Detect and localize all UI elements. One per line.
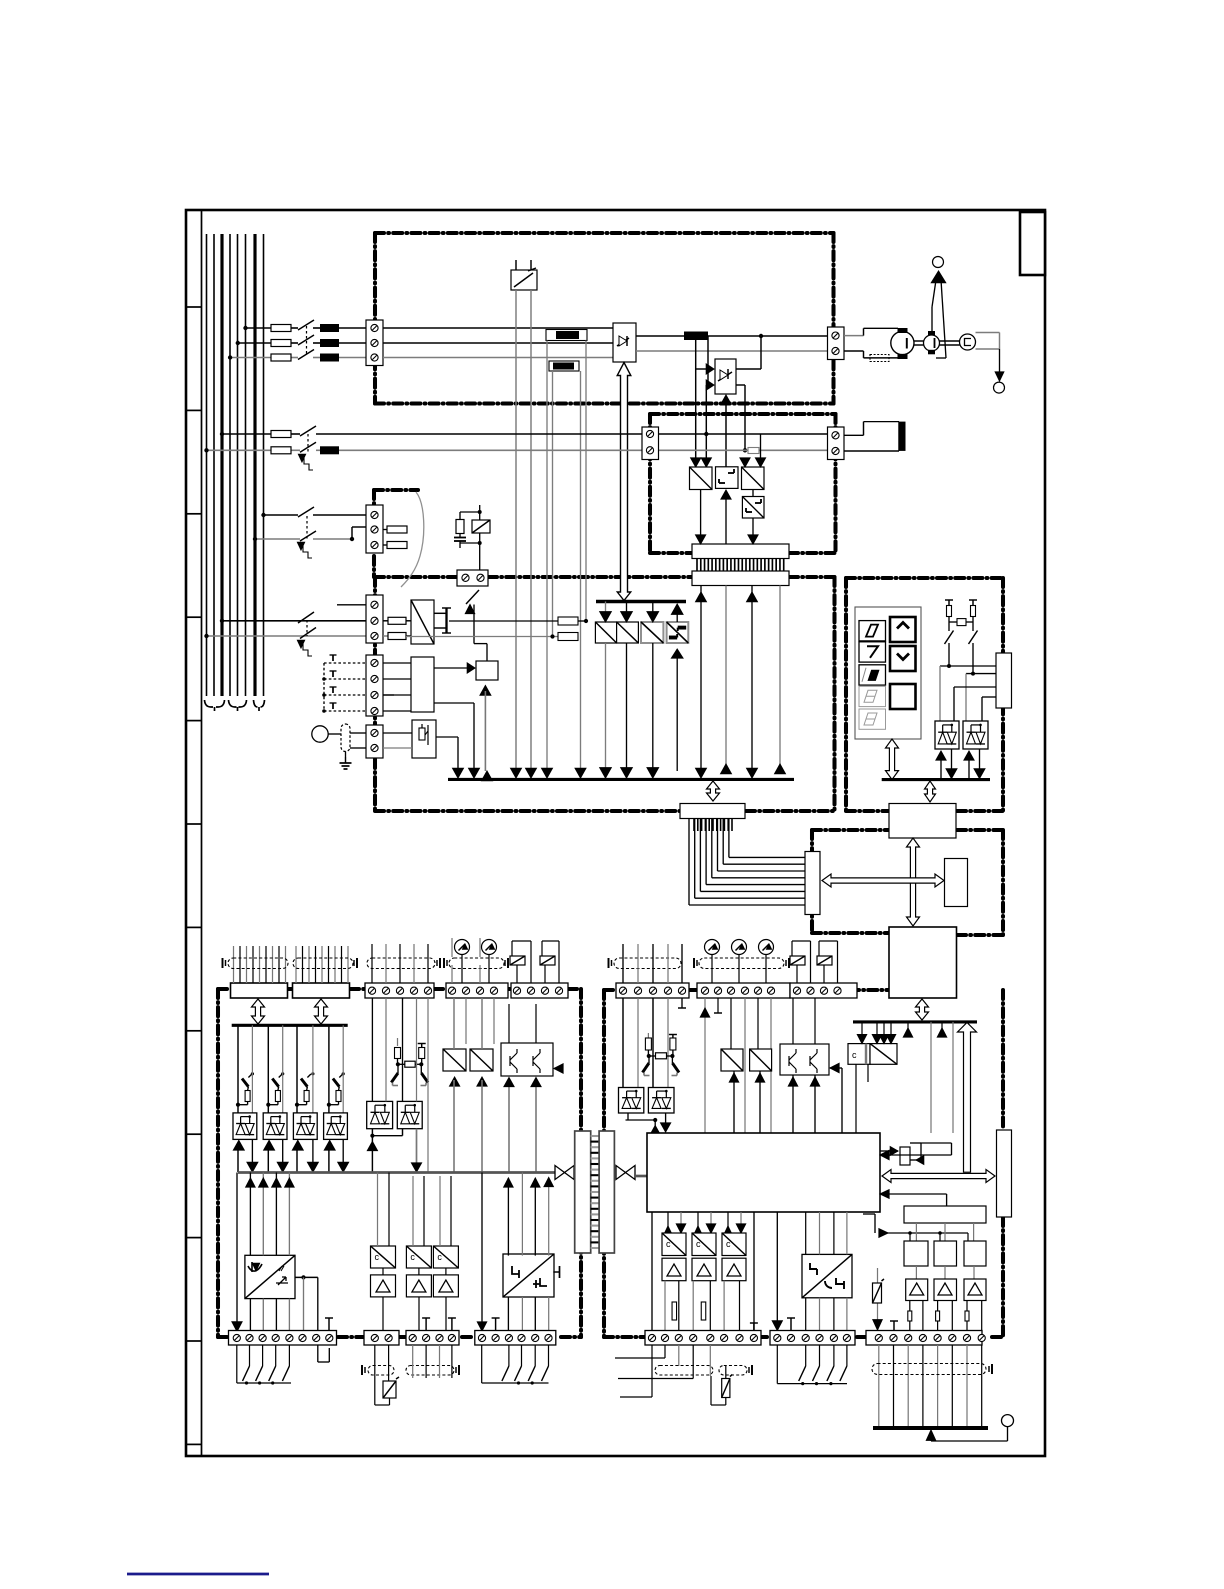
safety switch SW1 <box>397 1066 399 1073</box>
opto coupler SR2 <box>648 1088 674 1114</box>
page frame inner column line <box>201 211 203 1455</box>
wire: aux row DC- to brake <box>207 449 272 451</box>
cable shield X11 <box>449 958 504 969</box>
wire: control supply row1 <box>264 514 299 516</box>
wires DA-R <box>733 1071 735 1133</box>
meter M-A2 <box>482 940 497 955</box>
ribbon cable pins P1 <box>233 946 235 983</box>
cable shield dashed <box>870 355 889 362</box>
terminal block X6 <box>457 570 488 586</box>
connector E2 <box>692 571 789 586</box>
wire: DC- row <box>636 350 827 352</box>
switch Q4 on control rows <box>298 612 314 623</box>
input resistor Ri2 <box>275 1091 280 1102</box>
fuse F2 <box>271 340 291 347</box>
wire: U2 bottom out <box>434 702 474 704</box>
dashed input lines with switches <box>324 662 366 664</box>
safety resistor RS2 <box>419 1048 425 1059</box>
power supply rectifier U1 <box>411 600 434 644</box>
T-stub RA <box>753 1323 755 1330</box>
keypad button down <box>890 646 916 671</box>
relay contacts X19 <box>790 956 805 965</box>
isolated supply box PS3 <box>802 1254 852 1297</box>
fuse F1 <box>271 325 291 332</box>
switch Q3 <box>298 507 314 517</box>
keypad switch S4 <box>969 631 978 645</box>
cable curve to transformer <box>401 492 424 587</box>
A/D box AD2 <box>470 1049 493 1071</box>
input chain 4 wiring <box>328 1025 330 1113</box>
wires I to J <box>915 1223 917 1241</box>
relay K1 coil <box>472 520 490 533</box>
wires drivers to bottom bus <box>605 643 607 771</box>
input chain 1 wiring <box>237 1025 239 1113</box>
wire: chopper outputs <box>736 368 761 370</box>
grey feeds to safety optos <box>371 998 373 1101</box>
keypad button up <box>890 617 916 642</box>
D/A DA-B2 <box>692 1233 716 1256</box>
DAC header box I <box>904 1206 986 1223</box>
board connector CN2 <box>599 1131 614 1253</box>
AO1 output net <box>295 1276 318 1278</box>
keypad bus wires <box>940 755 942 779</box>
terminal strip X14 <box>364 1331 399 1346</box>
wires AO1 up <box>249 1173 251 1256</box>
isolated supply box PS2 <box>503 1254 554 1297</box>
wire: row to fuse <box>383 620 388 622</box>
bowtie connector right <box>616 1166 626 1180</box>
opto outputs 2 <box>267 1146 269 1172</box>
option module F <box>945 859 968 907</box>
bus group brace 2 <box>229 700 247 711</box>
wires PS2 <box>507 1178 509 1256</box>
wire: control supply row2 <box>255 538 300 540</box>
cable shield RB short <box>719 1366 747 1376</box>
page frame outer border <box>186 210 1045 1456</box>
filter resistor RF1 <box>558 617 578 625</box>
dual box c-diag <box>848 1044 870 1065</box>
main switch Q1 <box>298 320 314 330</box>
wires busB <box>907 1022 909 1036</box>
connector bracket <box>434 612 446 614</box>
wires DA chains <box>377 1173 379 1247</box>
signal bus bar B <box>853 1020 977 1023</box>
input resistor Ri3 <box>304 1091 309 1102</box>
wire: DC+ row <box>636 335 827 337</box>
connector E1 <box>692 544 789 559</box>
T-stub X16 <box>495 1318 497 1330</box>
relay contact RC2 <box>540 956 555 965</box>
sample hold J1 <box>904 1241 928 1266</box>
fuse F8 <box>383 544 387 546</box>
PTC evaluation U4 <box>412 720 436 758</box>
contacts below RB <box>776 1345 778 1384</box>
wire: bus to X7 row2 <box>222 620 366 622</box>
wires X11 up <box>451 965 453 983</box>
wire: X9 to U4 <box>383 732 412 734</box>
ribbon hatch E1-E2 <box>696 559 698 572</box>
input resistor Ri4 <box>336 1091 341 1102</box>
arrow to control <box>931 271 946 283</box>
arrows into G right <box>880 1150 889 1159</box>
gate driver b3 <box>641 622 663 643</box>
PE circle top <box>933 257 944 268</box>
bottom signal bus of box3 <box>448 778 794 781</box>
current sensor T2b <box>549 361 579 371</box>
big open arrow rectifier to gate bus <box>617 363 631 601</box>
grey line chain 4 <box>342 1025 344 1113</box>
RC snubber capacitor <box>454 537 466 539</box>
dash-dot enclosure: option board box7 <box>604 988 616 992</box>
cable shield X18 <box>699 958 784 969</box>
gate transformer box g4 <box>742 497 764 519</box>
keypad button enter <box>890 684 916 709</box>
open arrow P2 to bus <box>315 999 328 1024</box>
opto coupler B <box>963 721 988 749</box>
keypad connector <box>996 653 1012 708</box>
varistor RV2 <box>877 1268 879 1323</box>
A/D box AD1 <box>443 1049 466 1071</box>
wires AO1 down <box>236 1173 238 1326</box>
fuse F5 <box>271 447 291 454</box>
input chain 2 wiring <box>267 1025 269 1113</box>
fuse F4 <box>271 431 291 438</box>
gate driver b4 PWM <box>667 622 689 643</box>
terminal strip X19 <box>790 983 857 998</box>
safety series RS3 <box>405 1061 415 1067</box>
fuse F10 <box>388 633 406 640</box>
gate driver b2 <box>617 622 639 643</box>
amplifier A2 <box>406 1275 431 1297</box>
cable shield P2 <box>293 958 353 969</box>
amp AB3 <box>722 1258 746 1281</box>
wires latch <box>920 1143 922 1160</box>
blue footer line <box>127 1573 269 1576</box>
filter resistor RF2 <box>558 633 578 641</box>
wire: rows to U2 <box>383 662 411 664</box>
keypad pullup R1 <box>947 606 952 617</box>
connector D <box>805 852 820 915</box>
contacts below X16 <box>508 1345 510 1366</box>
amplifier K3 <box>964 1279 986 1301</box>
PE bus bar <box>873 1426 988 1430</box>
fuse F7 <box>383 529 387 531</box>
frame tick marks <box>187 306 202 308</box>
wire: phases into rectifier <box>383 327 613 329</box>
wires below RA <box>651 1345 653 1397</box>
big open arrow busB down <box>958 1023 977 1173</box>
PE terminal circle <box>1002 1415 1014 1427</box>
wires AD <box>453 998 455 1049</box>
wires X18 up/down <box>704 998 706 1133</box>
DC link choke L5 <box>684 332 708 341</box>
arrows onto bottom bus <box>453 768 464 778</box>
rectifier bridge V1 <box>613 323 636 362</box>
analog opto isolator AO1 <box>245 1255 295 1298</box>
keypad housing <box>855 607 921 739</box>
board connector CN1 <box>575 1131 591 1253</box>
7-segment digits <box>859 621 886 641</box>
D/A DA-B1 <box>662 1233 686 1256</box>
open arrow E to busB <box>916 999 929 1020</box>
opto coupler IN4 <box>324 1113 348 1140</box>
start inhibit logic U3 <box>476 661 498 680</box>
I/O signal line <box>238 1171 555 1174</box>
opto coupler A <box>935 721 959 749</box>
wire to g3 from rows <box>760 434 762 460</box>
terminal strip X10 <box>365 983 434 998</box>
keypad series R3 <box>957 619 966 626</box>
meters X18 <box>705 940 720 955</box>
opto coupler IN3 <box>293 1113 317 1140</box>
motor PTC sensor <box>312 726 328 742</box>
terminal strip X11 <box>446 983 508 998</box>
terminal strip X18 <box>697 983 790 998</box>
open arrow bus down to U5 <box>925 781 936 802</box>
grey line chain 3 <box>312 1025 314 1113</box>
open arrow P1 to bus <box>252 999 265 1024</box>
output transistor box QT2 <box>780 1044 829 1075</box>
terminal strip X15 <box>406 1331 459 1346</box>
svg-text:c: c <box>410 1252 415 1262</box>
contact row below X13 <box>236 1345 238 1366</box>
wire <box>406 620 411 622</box>
ribbon hatch CN <box>591 1135 600 1137</box>
output resistors K <box>909 1301 911 1312</box>
wires QT1 <box>508 1004 510 1043</box>
wires J to K <box>915 1266 917 1279</box>
cable shield X10 <box>367 958 435 969</box>
D/A converter DA1 <box>371 1246 396 1268</box>
terminal block X5 <box>366 505 383 553</box>
wire to X16 <box>481 1173 483 1326</box>
wire: PTC out <box>436 736 458 738</box>
digital input terminal X8 <box>366 655 383 716</box>
wires E2 to bus <box>700 586 702 772</box>
motor M1 <box>891 331 914 354</box>
tachometer B1 <box>940 340 960 342</box>
wire: sensor1 leads <box>546 341 548 772</box>
amp AB1 <box>662 1258 686 1281</box>
opto coupler S1 <box>367 1101 393 1128</box>
svg-text:c: c <box>375 1252 380 1262</box>
T-stub X20 <box>893 1321 895 1330</box>
brake chopper V2 <box>715 359 736 394</box>
terminal strip X13 <box>229 1331 337 1346</box>
varistor RV1 <box>374 1345 376 1405</box>
output transistor box QT1 <box>501 1043 553 1076</box>
svg-text:c: c <box>696 1239 701 1249</box>
svg-text:c: c <box>437 1252 442 1262</box>
terminal block X3 <box>642 427 659 460</box>
horizontal open arrow D to F <box>822 874 944 887</box>
bus group brace 1 <box>205 700 225 711</box>
wire: U3 up feed <box>480 686 491 696</box>
wires chopper gates to E1 <box>700 489 702 538</box>
terminal block X2 DC link <box>828 327 845 360</box>
keypad bus bar <box>882 778 990 781</box>
opto coupler IN1 <box>233 1113 257 1140</box>
wire G to RB arrow <box>776 1212 778 1325</box>
wire G to J rail <box>863 1213 875 1215</box>
safety switch SW2 <box>420 1066 422 1073</box>
cable shield X17 <box>614 958 681 969</box>
open arrow keypad to bus <box>886 739 899 780</box>
I/O bus bar <box>232 1024 348 1027</box>
svg-text:c: c <box>726 1239 731 1249</box>
fuse F6 on brake row <box>748 448 759 454</box>
grey line chain 2 <box>282 1025 284 1113</box>
wire: chopper feeds <box>695 336 697 467</box>
terminal strip X22 RB <box>770 1331 855 1346</box>
wires QT2 <box>792 1075 794 1133</box>
svg-text:c: c <box>852 1050 857 1060</box>
opto outputs 1 <box>237 1146 239 1172</box>
input chain 3 wiring <box>296 1025 298 1113</box>
dash-dot enclosure: power section box1 <box>375 231 834 235</box>
wire: thermistor sense lines down <box>515 290 517 771</box>
terminal block X1 <box>366 320 383 366</box>
ribbon connector P2 <box>293 983 350 998</box>
amplifier K2 <box>934 1279 957 1301</box>
cable shield RA <box>655 1366 713 1376</box>
wires into dual box <box>861 1022 863 1037</box>
fanout E3 to D <box>688 819 690 906</box>
terminal strip X21 RA <box>645 1331 761 1346</box>
brake resistor RB <box>844 434 864 436</box>
connector H <box>997 1130 1012 1217</box>
terminal block X7 <box>366 595 383 643</box>
grey line chain 1 <box>251 1025 253 1113</box>
wire: chopper to gate transformer <box>725 404 727 467</box>
dash-dot enclosure: keypad box4 <box>846 576 1003 580</box>
wire: stub <box>337 604 366 606</box>
terminal strip X17 <box>616 983 689 998</box>
dash-dot enclosure: brake section box2 <box>650 412 836 416</box>
input resistor Ri1 <box>245 1091 250 1102</box>
dash-dot stub above terminal X5 <box>374 488 418 492</box>
opto outputs 4 <box>328 1146 330 1172</box>
wire: psu output <box>449 620 558 622</box>
line choke L2 <box>320 339 339 347</box>
terminal block X4 brake <box>828 427 845 460</box>
PE circle right <box>994 382 1005 393</box>
wires chains to strip RA <box>664 1281 666 1330</box>
circuit breaker Q2 <box>300 426 316 436</box>
vertical open arrow U5 to E <box>907 838 920 926</box>
gate bus bar <box>596 600 686 603</box>
gate transformer box g1 <box>690 467 713 490</box>
line choke L1 <box>320 324 339 332</box>
wire: aux row DC+ to brake <box>222 433 271 435</box>
sample hold J2 <box>934 1241 957 1266</box>
wires keypad logic <box>948 643 950 666</box>
PTC terminal X9 <box>366 725 383 758</box>
wire: motor cable <box>844 335 864 337</box>
T-stub X13 <box>328 1318 330 1330</box>
wires X19 down <box>792 998 794 1044</box>
plug to tacho <box>976 332 1000 334</box>
safety chain right resistors <box>647 1033 649 1039</box>
cable shield X15 <box>406 1366 454 1376</box>
terminal strip X12 <box>511 983 568 998</box>
amplifier K1 <box>906 1279 928 1301</box>
input conditioning block U2 <box>411 657 434 712</box>
meter M-A1 <box>455 940 470 955</box>
arrows busbar to drivers <box>605 602 607 615</box>
D/A DA-B3 <box>722 1233 746 1256</box>
amplifier A1 <box>371 1275 396 1297</box>
opto coupler IN2 <box>263 1113 287 1140</box>
amp AB2 <box>692 1258 716 1281</box>
ribbon hatch E3 <box>693 819 695 832</box>
opto outputs 3 <box>296 1146 298 1172</box>
dash-dot enclosure: comm option box5 <box>812 828 889 832</box>
wires X17 <box>622 944 624 983</box>
ribbon connector P1 <box>231 983 288 998</box>
wire: 3-phase input lines <box>246 327 272 329</box>
T-stubs X15 <box>425 1318 427 1330</box>
dash-dot enclosure: I/O board box6 <box>218 987 230 991</box>
gate transformer box g3 <box>742 467 765 490</box>
fuse F9 <box>388 617 406 624</box>
bowtie connector left <box>555 1166 565 1180</box>
wires RC down to PE bar <box>878 1345 880 1427</box>
gate array block G <box>647 1133 880 1212</box>
T-stub RB <box>790 1318 792 1330</box>
opto coupler SR1 <box>619 1088 644 1114</box>
D/A box DA-R2 <box>750 1049 772 1071</box>
wide open arrow G to H <box>882 1170 995 1183</box>
wires safety optos <box>371 1129 373 1173</box>
wires X10 up <box>371 944 373 983</box>
wire PE <box>1007 1427 1009 1441</box>
cable shield X14 <box>368 1366 394 1376</box>
choke L4 <box>320 446 339 454</box>
connector E3 bottom <box>680 804 745 819</box>
wire: bus to X7 row3 <box>207 635 367 637</box>
comm block U5 <box>889 804 956 839</box>
dash-dot enclosure: control board box3 <box>375 575 457 579</box>
RC snubber resistor <box>456 520 464 534</box>
D/A box DA-R1 <box>721 1049 743 1071</box>
bus group brace 3 <box>254 700 265 711</box>
open arrow bus to E1 <box>707 781 720 801</box>
terminal strip X23 RC <box>866 1331 982 1346</box>
ribbon cable pins P2 <box>295 946 297 983</box>
gate transformer box g2 <box>716 467 739 489</box>
mains supply bus lines <box>206 234 208 696</box>
wire: sensor2 leads <box>552 371 554 637</box>
safety switches right <box>648 1058 650 1063</box>
CPU block E <box>889 927 957 998</box>
title block small box top right <box>1020 212 1045 275</box>
wire: tacho drop <box>999 349 1001 376</box>
wires X12 <box>511 941 513 956</box>
wire: snubber net <box>459 512 461 520</box>
D/A converter DA2 <box>406 1246 431 1268</box>
cable shield RC <box>872 1364 986 1375</box>
safety resistor RS1 <box>397 1038 399 1046</box>
fuse F3 <box>271 354 291 361</box>
wire: U2 to U3 <box>434 667 470 669</box>
wires G bottom to chains <box>651 1212 653 1330</box>
keypad switch S3 <box>945 631 954 645</box>
keypad pullup R2 <box>971 606 976 617</box>
relay contact RC1 <box>510 956 525 965</box>
current sensor T1 <box>546 330 587 341</box>
amplifier A3 <box>433 1275 458 1297</box>
